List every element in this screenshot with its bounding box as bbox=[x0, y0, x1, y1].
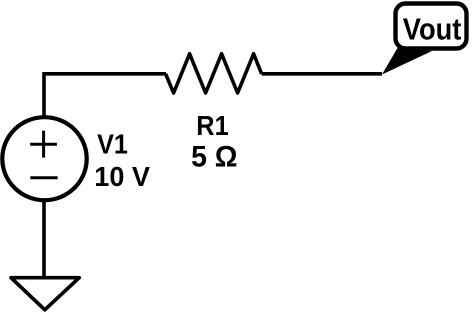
voltage source V1 bbox=[2, 117, 86, 200]
V1 plus sign bbox=[30, 131, 57, 158]
svg-text:R1: R1 bbox=[196, 110, 228, 141]
svg-text:5 Ω: 5 Ω bbox=[191, 141, 237, 173]
svg-text:Vout: Vout bbox=[403, 11, 462, 46]
node Vout callout box bbox=[396, 4, 467, 49]
svg-text:V1: V1 bbox=[97, 129, 128, 160]
V1 minus sign bbox=[30, 176, 57, 179]
node Vout callout pointer bbox=[382, 48, 432, 75]
resistor R1 bbox=[166, 54, 262, 93]
ground bbox=[11, 278, 79, 310]
wire from resistor R1 to Vout node bbox=[262, 72, 382, 76]
svg-text:10 V: 10 V bbox=[94, 161, 150, 192]
wire from V1 negative terminal to ground bbox=[42, 200, 46, 277]
wire from V1 positive terminal up and right to resistor R1 bbox=[44, 74, 166, 116]
